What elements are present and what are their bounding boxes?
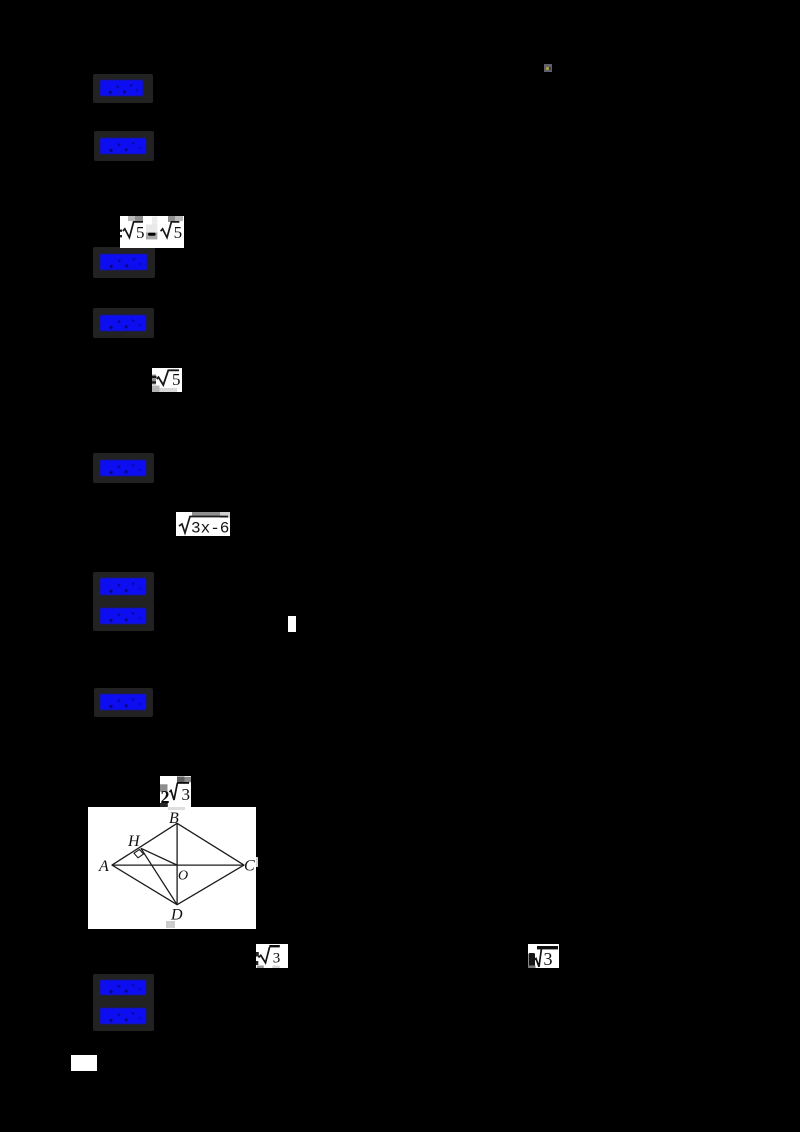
svg-text:5: 5 xyxy=(136,223,145,242)
svg-text:D: D xyxy=(170,907,183,924)
svg-text:5: 5 xyxy=(174,223,183,242)
svg-text:2: 2 xyxy=(161,787,170,807)
svg-text:3: 3 xyxy=(544,949,553,968)
svg-text:3x-6: 3x-6 xyxy=(191,520,229,537)
svg-text:C: C xyxy=(244,858,255,875)
svg-text:3: 3 xyxy=(273,951,281,967)
svg-text:O: O xyxy=(178,869,188,884)
svg-text:3: 3 xyxy=(182,785,191,804)
svg-text:5: 5 xyxy=(172,370,181,389)
svg-text:B: B xyxy=(169,810,179,827)
svg-text:H: H xyxy=(127,833,141,850)
svg-text:A: A xyxy=(98,858,109,875)
